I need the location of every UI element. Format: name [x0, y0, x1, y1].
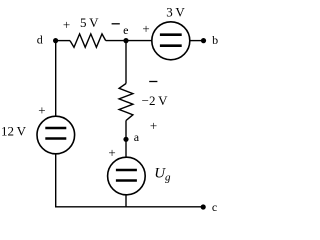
wire resistor R1 to node e [106, 40, 126, 42]
wire source U2 to node b [190, 40, 204, 42]
resistor R2 (vertical, -2V) [119, 84, 133, 121]
svg-text:d: d [37, 33, 43, 47]
node c dot [201, 204, 206, 209]
svg-text:+: + [142, 21, 149, 36]
voltage source U1 12V (circle) [37, 116, 75, 154]
svg-text:b: b [212, 33, 218, 47]
node e dot [123, 38, 128, 43]
wire d down to source U1 (12V) [55, 41, 57, 117]
svg-text:+: + [63, 17, 70, 32]
bottom rail wire [55, 206, 203, 208]
wire node e down to resistor R2 [125, 41, 127, 84]
svg-text:5 V: 5 V [80, 15, 99, 30]
voltage source U2 3V (circle) [152, 22, 190, 60]
node d dot [53, 38, 58, 43]
svg-text:a: a [134, 130, 140, 144]
voltage source U3 Ug (circle) [108, 157, 146, 195]
svg-text:c: c [212, 200, 217, 214]
svg-text:Ug: Ug [154, 165, 171, 183]
svg-text:+: + [150, 118, 157, 133]
node a dot [123, 137, 128, 142]
wire resistor R2 to node a [125, 121, 127, 158]
svg-text:+: + [108, 145, 115, 160]
source U3 inner bars [116, 169, 137, 172]
svg-text:12 V: 12 V [1, 123, 27, 138]
svg-text:+: + [38, 103, 45, 118]
wire node e to source U2 (3V) [126, 40, 152, 42]
node b dot [201, 38, 206, 43]
wire source U1 to bottom rail [55, 154, 57, 207]
resistor R1 (horizontal, between d and e) [70, 34, 106, 47]
label minus (R1 right polarity) [112, 23, 120, 25]
wire d to resistor R1 [56, 40, 70, 42]
svg-text:3 V: 3 V [166, 5, 185, 20]
source U2 inner bars [160, 33, 182, 36]
source U1 inner bars [45, 127, 66, 130]
svg-text:−2 V: −2 V [142, 93, 168, 108]
wire source U3 to bottom rail [125, 195, 127, 207]
svg-text:e: e [123, 23, 128, 37]
label minus (R2 top polarity) [149, 81, 157, 83]
